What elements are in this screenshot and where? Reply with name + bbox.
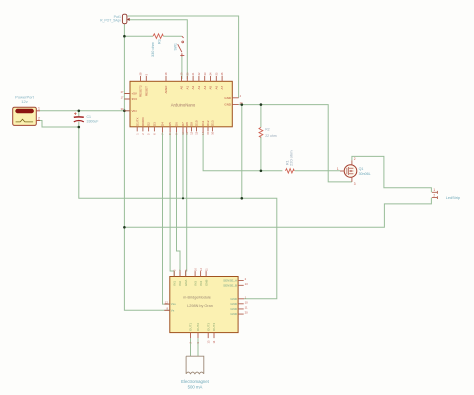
wire arduino D8 to bridge ENA xyxy=(186,132,187,276)
bridge left pin names Vss Vs xyxy=(171,302,177,312)
wire ground rail: C1 bottom down, across, down to bridge GND pin xyxy=(79,127,277,299)
svg-text:R_POT_5Aqv: R_POT_5Aqv xyxy=(100,19,121,23)
svg-text:22 ohm: 22 ohm xyxy=(265,134,276,138)
svg-text:3: 3 xyxy=(354,182,356,186)
resistor R1 220 ohm xyxy=(285,150,294,173)
wire power port pin2 to capacitor C1 bottom xyxy=(36,121,79,128)
resistor R3 330 ohm xyxy=(151,34,163,57)
svg-text:L298N by Oran: L298N by Oran xyxy=(187,304,213,308)
svg-text:A4: A4 xyxy=(203,85,207,89)
svg-text:GND: GND xyxy=(230,307,238,311)
wire bridge OUT2 to electromagnet xyxy=(197,338,199,356)
svg-text:D9: D9 xyxy=(190,122,194,126)
svg-text:A1: A1 xyxy=(185,85,189,89)
svg-text:A6: A6 xyxy=(214,85,218,89)
wire 12V: power port pin1 to arduino VIN xyxy=(40,110,130,112)
svg-text:A3: A3 xyxy=(197,85,201,89)
junction node pot branch xyxy=(123,35,126,38)
led strip LED1 xyxy=(432,188,460,200)
bridge right pins SENSE_A SENSE_B GND x4 xyxy=(238,281,244,315)
svg-text:A2: A2 xyxy=(191,85,195,89)
junction node at capacitor C1 bottom xyxy=(78,126,81,129)
bridge bottom pin names OUT1-OUT4 xyxy=(189,323,217,331)
svg-text:R2: R2 xyxy=(265,127,269,131)
wire arduino D7 to ground rail xyxy=(182,132,184,198)
svg-text:30n06L: 30n06L xyxy=(359,172,371,176)
svg-text:GND: GND xyxy=(224,96,232,100)
svg-text:ENA: ENA xyxy=(184,280,188,286)
svg-text:R1: R1 xyxy=(285,160,289,165)
svg-text:m-BridgeModule: m-BridgeModule xyxy=(183,295,211,299)
svg-text:13: 13 xyxy=(245,282,249,286)
svg-text:D8: D8 xyxy=(185,122,189,126)
svg-text:SW1: SW1 xyxy=(173,43,177,50)
wire switch SW1 bottom to arduino pin A0 xyxy=(181,57,183,80)
bridge left pin numbers xyxy=(165,300,169,310)
svg-text:GND: GND xyxy=(230,302,238,306)
wire pot1 wiper to arduino pin A1 xyxy=(128,20,188,79)
junction node GND wire to R2 xyxy=(260,103,263,106)
bridge bottom pin numbers xyxy=(189,340,217,343)
junction node D7 to ground rail xyxy=(182,197,184,199)
power port J1 xyxy=(13,94,40,125)
wire capacitor C1 bottom tap xyxy=(78,122,80,127)
wire R2 top from GND wire xyxy=(260,105,262,128)
svg-text:IN4: IN4 xyxy=(199,281,203,286)
svg-text:GND: GND xyxy=(230,297,238,301)
junction node ground rail xyxy=(241,197,244,200)
wire mosfet Q1 drain to ledstrip pin1 xyxy=(352,156,432,192)
arduino bottom pin names xyxy=(135,117,214,126)
bridge top pin numbers xyxy=(172,268,208,271)
svg-text:500 mA: 500 mA xyxy=(188,384,203,389)
arduino U1 ArduinoNano xyxy=(130,81,232,127)
svg-text:1: 1 xyxy=(433,188,435,192)
svg-text:D0/RX: D0/RX xyxy=(141,117,145,126)
svg-text:D10: D10 xyxy=(195,120,199,126)
svg-text:11: 11 xyxy=(245,306,248,310)
switch SW1 xyxy=(173,36,184,56)
resistor R2 22 ohm xyxy=(259,127,277,137)
svg-text:Electromagnet: Electromagnet xyxy=(181,379,210,384)
wire pot1 bottom pin down the 12V column to bridge Vs xyxy=(124,24,169,311)
mosfet Q1 30n06L xyxy=(337,157,371,186)
junction node GND wire drop left xyxy=(241,103,244,106)
svg-text:20: 20 xyxy=(245,311,249,315)
svg-text:Vss: Vss xyxy=(171,302,177,306)
svg-text:SENSE_B: SENSE_B xyxy=(223,283,237,287)
capacitor C1 3300uF xyxy=(74,112,99,123)
svg-text:OUT2: OUT2 xyxy=(196,323,200,331)
bridge right pin numbers xyxy=(245,277,249,315)
svg-text:330 ohm: 330 ohm xyxy=(151,42,155,57)
svg-text:VIN: VIN xyxy=(132,109,137,113)
svg-text:C1: C1 xyxy=(87,115,92,119)
h-bridge module U2 xyxy=(170,277,238,333)
svg-text:D11: D11 xyxy=(201,120,205,126)
svg-text:OUT3: OUT3 xyxy=(206,323,210,331)
svg-text:AREF: AREF xyxy=(164,85,168,93)
svg-text:SENSE_A: SENSE_A xyxy=(223,279,237,283)
arduino right pin stubs (GND GND) xyxy=(232,98,238,105)
svg-text:10: 10 xyxy=(245,300,249,304)
wire bridge OUT1 to electromagnet xyxy=(190,338,192,356)
svg-text:D6: D6 xyxy=(175,122,179,126)
potentiometer Pot1 xyxy=(100,14,129,24)
bridge right pin names xyxy=(223,279,238,317)
svg-text:RESET2: RESET2 xyxy=(139,85,143,97)
bridge top pin stubs xyxy=(174,271,206,276)
svg-text:D4: D4 xyxy=(161,122,165,126)
wire gate line: arduino D11 to R1 xyxy=(203,132,282,170)
bridge left pins Vss Vs xyxy=(164,304,170,310)
svg-text:LedStrip: LedStrip xyxy=(446,196,460,200)
arduino bottom pin stubs (D1/TX D0/RX D2-D13) xyxy=(137,127,212,133)
wire GND drop from arduino GND wire to ground rail xyxy=(241,105,243,199)
svg-text:D1/TX: D1/TX xyxy=(135,117,139,126)
svg-text:Vs: Vs xyxy=(171,308,175,312)
svg-text:IN2: IN2 xyxy=(178,281,182,286)
wire R1 to mosfet Q1 gate xyxy=(295,170,340,172)
wire capacitor C1 top tap xyxy=(78,111,80,117)
svg-text:Q1: Q1 xyxy=(359,167,364,171)
svg-text:R3: R3 xyxy=(158,39,162,44)
bridge top pin names xyxy=(172,280,208,286)
wire ledstrip pin2 to 12V column (line at y=227) xyxy=(124,198,431,228)
svg-text:ENB: ENB xyxy=(204,280,208,286)
arduino right pin names xyxy=(224,96,232,107)
svg-text:A0: A0 xyxy=(180,85,184,89)
svg-text:D5: D5 xyxy=(168,122,172,126)
wire R2 bottom to gate line xyxy=(260,136,262,170)
svg-text:2: 2 xyxy=(433,194,435,198)
svg-text:A7: A7 xyxy=(220,85,224,89)
junction node 12V line to ledstrip xyxy=(123,226,126,229)
arduino top pin numbers xyxy=(139,72,225,75)
arduino top pin names (RESET2 RESET AREF A0-A7) xyxy=(139,85,225,97)
arduino bottom pin numbers xyxy=(135,131,214,134)
svg-text:IN3: IN3 xyxy=(193,281,197,286)
wire pot1 top pin to arduino GND pin1 (top route) xyxy=(128,16,239,98)
svg-text:ArduinoNano: ArduinoNano xyxy=(171,102,196,107)
svg-text:OUT1: OUT1 xyxy=(189,323,193,331)
wire arduino D6 to bridge IN2 xyxy=(177,132,181,276)
svg-text:D3: D3 xyxy=(153,122,157,126)
junction node at capacitor C1 top xyxy=(78,110,81,113)
svg-text:12: 12 xyxy=(165,300,169,304)
junction node at arduino VIN xyxy=(123,110,126,113)
svg-text:RESET: RESET xyxy=(144,86,148,96)
svg-text:1: 1 xyxy=(38,107,40,111)
svg-text:3300uF: 3300uF xyxy=(87,119,99,123)
bridge bottom pins OUT1-OUT4 xyxy=(191,333,215,339)
svg-text:1: 1 xyxy=(337,167,339,171)
svg-text:2: 2 xyxy=(38,116,40,120)
svg-text:12v: 12v xyxy=(21,99,27,104)
arduino right pin numbers xyxy=(240,94,243,105)
arduino left pin numbers xyxy=(121,90,124,111)
svg-text:D13: D13 xyxy=(211,120,215,126)
wire branch to resistor R3 and switch SW1 xyxy=(124,35,153,37)
wire arduino D4 to bridge Vss xyxy=(163,132,170,304)
svg-text:D12: D12 xyxy=(206,120,210,126)
arduino left pin names xyxy=(132,92,138,113)
svg-text:3V3: 3V3 xyxy=(132,97,138,101)
wire arduino D5 to bridge IN1 xyxy=(170,132,174,276)
svg-text:A5: A5 xyxy=(209,85,213,89)
svg-text:D2: D2 xyxy=(147,122,151,126)
arduino left pin stubs (+5V 3V3 VIN) xyxy=(124,94,130,111)
junction node R2 to gate line xyxy=(260,170,263,173)
svg-text:GND: GND xyxy=(224,103,232,107)
svg-text:2: 2 xyxy=(354,157,356,161)
svg-text:IN1: IN1 xyxy=(172,281,176,286)
wire resistor R3 to switch SW1 top xyxy=(163,35,182,37)
wire arduino GND pin2 to mosfet Q1 source xyxy=(239,105,352,182)
electromagnet L1 500 mA xyxy=(181,356,210,389)
svg-text:OUT4: OUT4 xyxy=(212,323,216,331)
arduino top pin stubs xyxy=(141,76,223,81)
svg-text:+5V: +5V xyxy=(132,92,137,96)
svg-text:GND: GND xyxy=(230,312,238,316)
